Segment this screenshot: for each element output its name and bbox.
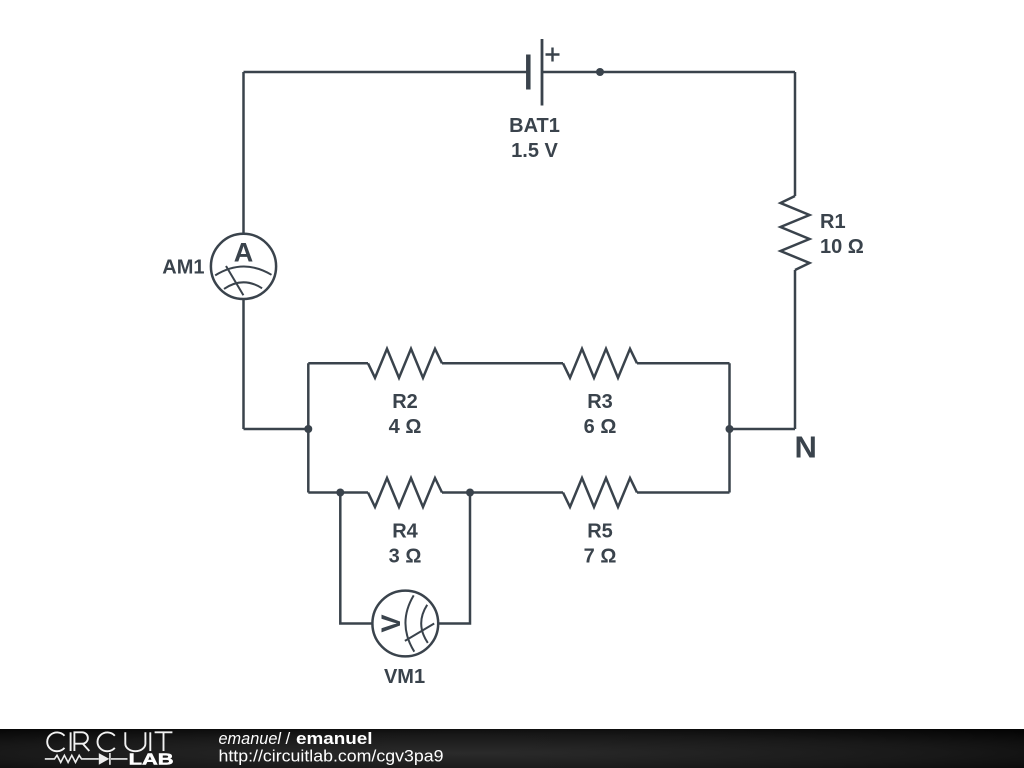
wire bottom branch left lead — [308, 491, 368, 494]
svg-text:/: / — [286, 729, 291, 748]
junction dot left node — [304, 425, 312, 433]
wire ammeter to parallel box — [244, 428, 309, 431]
junction dot node N — [726, 425, 734, 433]
wire top branch left lead — [308, 362, 368, 365]
svg-text:R1: R1 — [820, 211, 846, 233]
svg-text:R4: R4 — [392, 521, 418, 543]
wire top left horizontal — [244, 71, 529, 74]
logo letter I2 — [149, 732, 151, 751]
svg-text:7 Ω: 7 Ω — [584, 546, 617, 568]
wire right vertical lower — [794, 270, 797, 429]
svg-text:N: N — [795, 429, 817, 464]
svg-text:R5: R5 — [587, 521, 613, 543]
svg-text:1.5 V: 1.5 V — [511, 140, 558, 162]
logo letter C1 — [47, 732, 64, 751]
resistor R5 zigzag — [563, 478, 637, 507]
svg-text:BAT1: BAT1 — [509, 115, 560, 137]
logo CIRCUIT letters — [47, 732, 172, 751]
resistor R3 zigzag — [563, 349, 637, 378]
svg-text:VM1: VM1 — [384, 666, 425, 688]
junction dot R4 right — [466, 489, 474, 497]
svg-text:6 Ω: 6 Ω — [584, 416, 617, 438]
wire right vertical upper — [794, 72, 797, 196]
battery BAT1 positive plate — [541, 39, 544, 106]
resistor R2 zigzag — [368, 349, 442, 378]
logo letter R — [74, 732, 89, 751]
svg-text:AM1: AM1 — [162, 257, 204, 279]
logo letter T — [155, 732, 173, 751]
wire node N horizontal — [730, 428, 796, 431]
wire left vertical lower — [242, 299, 245, 429]
voltmeter VM1 — [372, 591, 438, 657]
svg-text:R2: R2 — [392, 391, 418, 413]
battery BAT1 negative plate — [526, 55, 531, 90]
logo diode triangle — [99, 753, 110, 765]
resistor R4 zigzag — [368, 478, 442, 507]
wire top right horizontal — [542, 71, 795, 74]
battery BAT1 plus sign — [546, 48, 560, 62]
logo letter U — [125, 732, 145, 751]
junction dot R4 left — [336, 489, 344, 497]
wire bottom branch middle — [442, 491, 563, 494]
resistor R1 zigzag — [781, 196, 810, 270]
wire top branch middle — [442, 362, 563, 365]
wire left vertical upper — [242, 72, 245, 234]
svg-text:10 Ω: 10 Ω — [820, 236, 864, 258]
logo letter I1 — [70, 732, 72, 751]
wire parallel box left vertical — [307, 363, 310, 492]
svg-text:V: V — [376, 614, 406, 632]
logo letter C2 — [97, 732, 114, 751]
svg-text:emanuel: emanuel — [219, 729, 283, 748]
wire voltmeter right drop — [438, 493, 470, 624]
svg-text:http://circuitlab.com/cgv3pa9: http://circuitlab.com/cgv3pa9 — [219, 747, 444, 766]
svg-text:4 Ω: 4 Ω — [389, 416, 422, 438]
svg-text:R3: R3 — [587, 391, 613, 413]
ammeter AM1 — [211, 234, 276, 299]
svg-text:LAB: LAB — [129, 752, 174, 768]
wire top branch right lead — [637, 362, 730, 365]
svg-text:A: A — [234, 238, 254, 268]
wire parallel box right vertical — [728, 363, 731, 492]
svg-text:emanuel: emanuel — [296, 729, 373, 748]
logo resistor-diode squiggle — [45, 753, 128, 765]
wire bottom branch right lead — [637, 491, 730, 494]
svg-text:3 Ω: 3 Ω — [389, 546, 422, 568]
junction dot top — [596, 68, 604, 76]
wire voltmeter left drop — [340, 493, 372, 624]
